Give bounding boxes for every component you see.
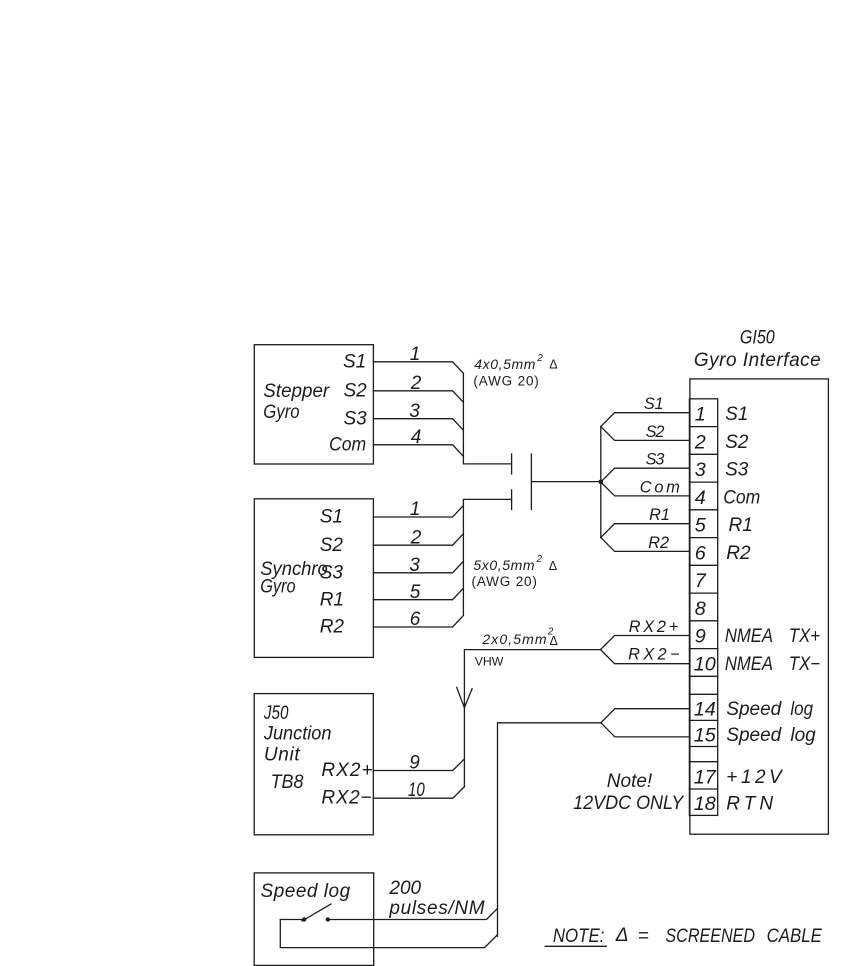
wire label S3 (bundle) [646,451,665,469]
svg-text:2: 2 [410,527,422,548]
svg-text:18: 18 [694,793,716,815]
svg-text:S2: S2 [343,381,367,402]
label Speed log [261,881,351,902]
terminal number 15 [694,724,717,746]
terminal label RTN [726,794,773,815]
wire number 5 (synchro) [410,582,421,603]
wire gi50 S3 [601,468,690,482]
svg-text:Note!: Note! [607,771,653,792]
svg-text:Com: Com [723,487,760,508]
pin label RX2- (J50) [321,788,371,809]
wire synchro 6 [373,616,463,628]
svg-text:S3: S3 [725,460,749,481]
svg-text:RX2+: RX2+ [629,618,679,636]
svg-text:R2: R2 [648,534,669,552]
terminal number 14 [694,698,716,720]
svg-text:Δ: Δ [549,559,557,573]
wire: stepper cable trunk [463,373,511,464]
wire number 6 (synchro) [410,609,421,630]
svg-text:SCREENED: SCREENED [665,926,755,947]
label GI50 [740,328,775,349]
svg-text:Speed log: Speed log [261,881,351,902]
terminal label R1 [729,515,753,536]
wire synchro 2 [373,534,463,546]
terminal number 17 [694,766,717,788]
svg-text:3: 3 [409,555,420,576]
svg-text:5x0,5mm: 5x0,5mm [473,557,535,573]
svg-text:5: 5 [410,582,421,603]
terminal label S3 [725,460,749,481]
wire number 10 [408,780,425,801]
svg-text:Stepper: Stepper [263,381,330,402]
wire number 3 (stepper) [409,401,420,422]
svg-text:2x0,5mm: 2x0,5mm [481,631,546,647]
wire number 2 (stepper) [410,373,422,394]
svg-text:6: 6 [410,609,421,630]
cable label (AWG 20) [472,574,537,589]
svg-text:GI50: GI50 [740,328,775,349]
svg-text:S3: S3 [343,408,367,429]
arrow: signal direction VHW [457,687,472,708]
wire: speed log pulse out [328,908,498,919]
wire label RX2+ (bundle) [629,618,679,636]
wire gi50 Speed log 14 [601,709,690,723]
svg-text:Δ: Δ [549,357,557,371]
svg-text:CABLE: CABLE [767,926,823,947]
wire gi50 R1 [601,524,690,538]
terminal label NMEA TX+ [725,626,820,647]
wire gi50 R2 [601,538,690,552]
wire number 2 (synchro) [410,527,422,548]
label TB8 [271,772,304,793]
pin label S1 (synchro) [320,507,343,528]
svg-text:Δ: Δ [550,634,558,648]
pin label R2 (synchro) [320,617,345,638]
terminal number 9 [695,626,706,648]
pin label S1 (stepper) [343,352,366,373]
terminal label S2 [725,432,749,453]
svg-text:VHW: VHW [475,655,504,669]
svg-text:S2: S2 [725,432,749,453]
wire number 9 [409,753,420,774]
wire gi50 RX2+ [601,636,690,650]
wire label Com (bundle) [640,478,680,496]
svg-text:9: 9 [695,626,706,648]
terminal label Speed log 15 [726,725,816,746]
terminal label +12V [726,767,784,788]
pin label S2 (synchro) [320,535,344,556]
svg-text:15: 15 [694,724,717,746]
svg-text:3: 3 [695,459,706,481]
svg-text:=: = [638,926,649,947]
label Synchro Gyro [260,559,328,597]
wire label RX2- (bundle) [628,646,679,664]
box: Speed log sensor [254,873,374,966]
wire: screen to GI50 common [531,481,600,483]
pin label RX2+ (J50) [321,760,372,781]
terminal number 1 [695,404,706,426]
svg-text:RTN: RTN [726,794,773,815]
svg-text:R1: R1 [320,589,344,610]
svg-text:R1: R1 [649,506,670,524]
svg-text:Gyro: Gyro [263,402,299,423]
svg-text:(AWG 20): (AWG 20) [473,373,538,388]
switch SW1 lever [302,904,331,921]
svg-text:S2: S2 [646,423,665,441]
wire J50 10 [373,787,464,799]
pin label S3 (synchro) [320,563,344,584]
svg-text:1: 1 [410,344,421,365]
cable label 2x0,5mm2 screened [481,627,557,648]
svg-text:Com: Com [329,435,366,456]
svg-text:TB8: TB8 [271,772,304,793]
svg-text:Δ: Δ [615,925,629,946]
junction node screen/Com [599,480,604,485]
wire synchro 3 [373,561,463,573]
switch SW1 contact right [326,917,330,921]
svg-text:NOTE:: NOTE: [553,926,605,947]
box: Stepper Gyro U1 [254,345,373,464]
label Gyro Interface [694,350,821,371]
svg-text:RX2−: RX2− [321,788,371,809]
svg-text:Gyro Interface: Gyro Interface [694,350,821,371]
svg-text:NMEATX−: NMEATX− [725,654,820,675]
terminal label S1 [725,404,748,425]
wire stepper 4 (Com) [373,445,463,457]
wire synchro 5 [373,588,463,600]
svg-text:4x0,5mm: 4x0,5mm [474,356,536,372]
wire gi50 RX2- [601,650,690,664]
terminal number 8 [695,598,706,620]
terminal label R2 [726,543,751,564]
terminal label NMEA TX- [725,654,820,675]
svg-text:2: 2 [410,373,422,394]
note: Note! 12VDC ONLY [573,771,685,814]
wire stepper 1 [373,362,463,374]
box: Synchro Gyro U2 [254,499,373,658]
terminal label Speed log 14 [726,699,813,720]
svg-text:10: 10 [408,780,425,801]
label VHW [475,655,504,669]
terminal number 7 [695,570,707,592]
svg-text:6: 6 [695,542,706,564]
terminal number 18 [694,793,716,815]
pin label R1 (synchro) [320,589,344,610]
svg-text:S1: S1 [725,404,748,425]
svg-text:Junction: Junction [263,724,332,745]
cable label (AWG 20) [473,373,538,388]
wire label S2 (bundle) [646,423,665,441]
terminal strip TB [689,399,717,816]
svg-text:3: 3 [409,401,420,422]
wire stepper 3 [373,419,463,431]
pin label S3 (stepper) [343,408,367,429]
svg-text:Gyro: Gyro [260,576,295,597]
svg-text:17: 17 [694,766,717,788]
svg-text:J50: J50 [263,703,289,724]
svg-text:R2: R2 [320,617,345,638]
wire label R1 (bundle) [649,506,670,524]
pin label Com (stepper) [329,435,366,456]
svg-text:7: 7 [695,570,707,592]
wire stepper 2 [373,391,463,403]
svg-text:S1: S1 [343,352,366,373]
svg-text:(AWG 20): (AWG 20) [472,574,537,589]
svg-text:1: 1 [695,404,706,426]
label Stepper Gyro [263,381,330,423]
box: J50 Junction Unit [254,694,373,835]
note: screened cable legend [553,925,822,947]
svg-text:RX2−: RX2− [628,646,679,664]
svg-text:4: 4 [411,427,422,448]
wire: gi50 bundle bus [600,427,602,538]
svg-text:Com: Com [640,478,680,496]
svg-text:NMEATX+: NMEATX+ [725,626,820,647]
svg-text:+12V: +12V [726,767,784,788]
svg-text:S1: S1 [644,395,664,413]
wire J50 9 [373,759,464,771]
terminal number 10 [694,653,716,675]
label J50 Junction Unit [263,703,332,766]
wire: NMEA cable to J50 [464,650,600,787]
wire number 1 (synchro) [410,499,421,520]
terminal label Com [723,487,760,508]
svg-text:12VDC ONLY: 12VDC ONLY [573,793,685,814]
wire label R2 (bundle) [648,534,669,552]
wire label S1 (bundle) [644,395,664,413]
svg-text:4: 4 [695,487,706,509]
wire number 1 (stepper) [410,344,421,365]
terminal number 3 [695,459,706,481]
switch SW1 contact left [302,917,306,921]
svg-text:S3: S3 [320,563,344,584]
pin label S2 (stepper) [343,381,367,402]
svg-text:14: 14 [694,698,716,720]
svg-text:R2: R2 [726,543,751,564]
wire gi50 Com [601,482,690,496]
wire: switch left stub [280,919,304,921]
terminal number 6 [695,542,706,564]
screen termination: stepper cable capacitor plate [511,454,513,474]
svg-text:S3: S3 [646,451,665,469]
wire: speed log cable [498,723,601,937]
svg-text:2: 2 [694,431,706,453]
svg-text:Unit: Unit [264,745,301,766]
svg-text:Speedlog: Speedlog [726,725,816,746]
svg-text:10: 10 [694,653,716,675]
cable label 200 pulses/NM [388,878,484,919]
box: GI50 Gyro Interface [690,379,829,834]
cable label 5x0,5mm2 screened [473,554,557,573]
svg-text:9: 9 [409,753,420,774]
screen termination: synchro cable capacitor plate [511,490,513,510]
svg-text:S2: S2 [320,535,344,556]
wire number 4 (stepper) [411,427,422,448]
wire number 3 (synchro) [409,555,420,576]
screen termination: common plate [530,454,532,509]
svg-text:2: 2 [536,353,543,364]
svg-text:pulses/NM: pulses/NM [388,898,484,919]
svg-text:200: 200 [388,878,421,899]
wire: synchro cable trunk [463,499,511,615]
wire: speed log return [280,920,497,948]
svg-text:RX2+: RX2+ [321,760,372,781]
wire gi50 S1 [601,413,690,427]
svg-text:Speedlog: Speedlog [726,699,813,720]
svg-text:5: 5 [695,515,707,537]
terminal number 4 [695,487,706,509]
svg-text:R1: R1 [729,515,753,536]
underline of NOTE: [545,945,606,947]
svg-text:1: 1 [410,499,421,520]
wire gi50 S2 [601,427,690,441]
wire gi50 Speed log 15 [601,723,690,737]
wire synchro 1 [373,506,463,518]
cable label 4x0,5mm2 screened [474,353,557,372]
terminal number 2 [694,431,706,453]
svg-text:S1: S1 [320,507,343,528]
svg-text:2: 2 [536,554,543,565]
terminal number 5 [695,515,707,537]
svg-text:8: 8 [695,598,706,620]
